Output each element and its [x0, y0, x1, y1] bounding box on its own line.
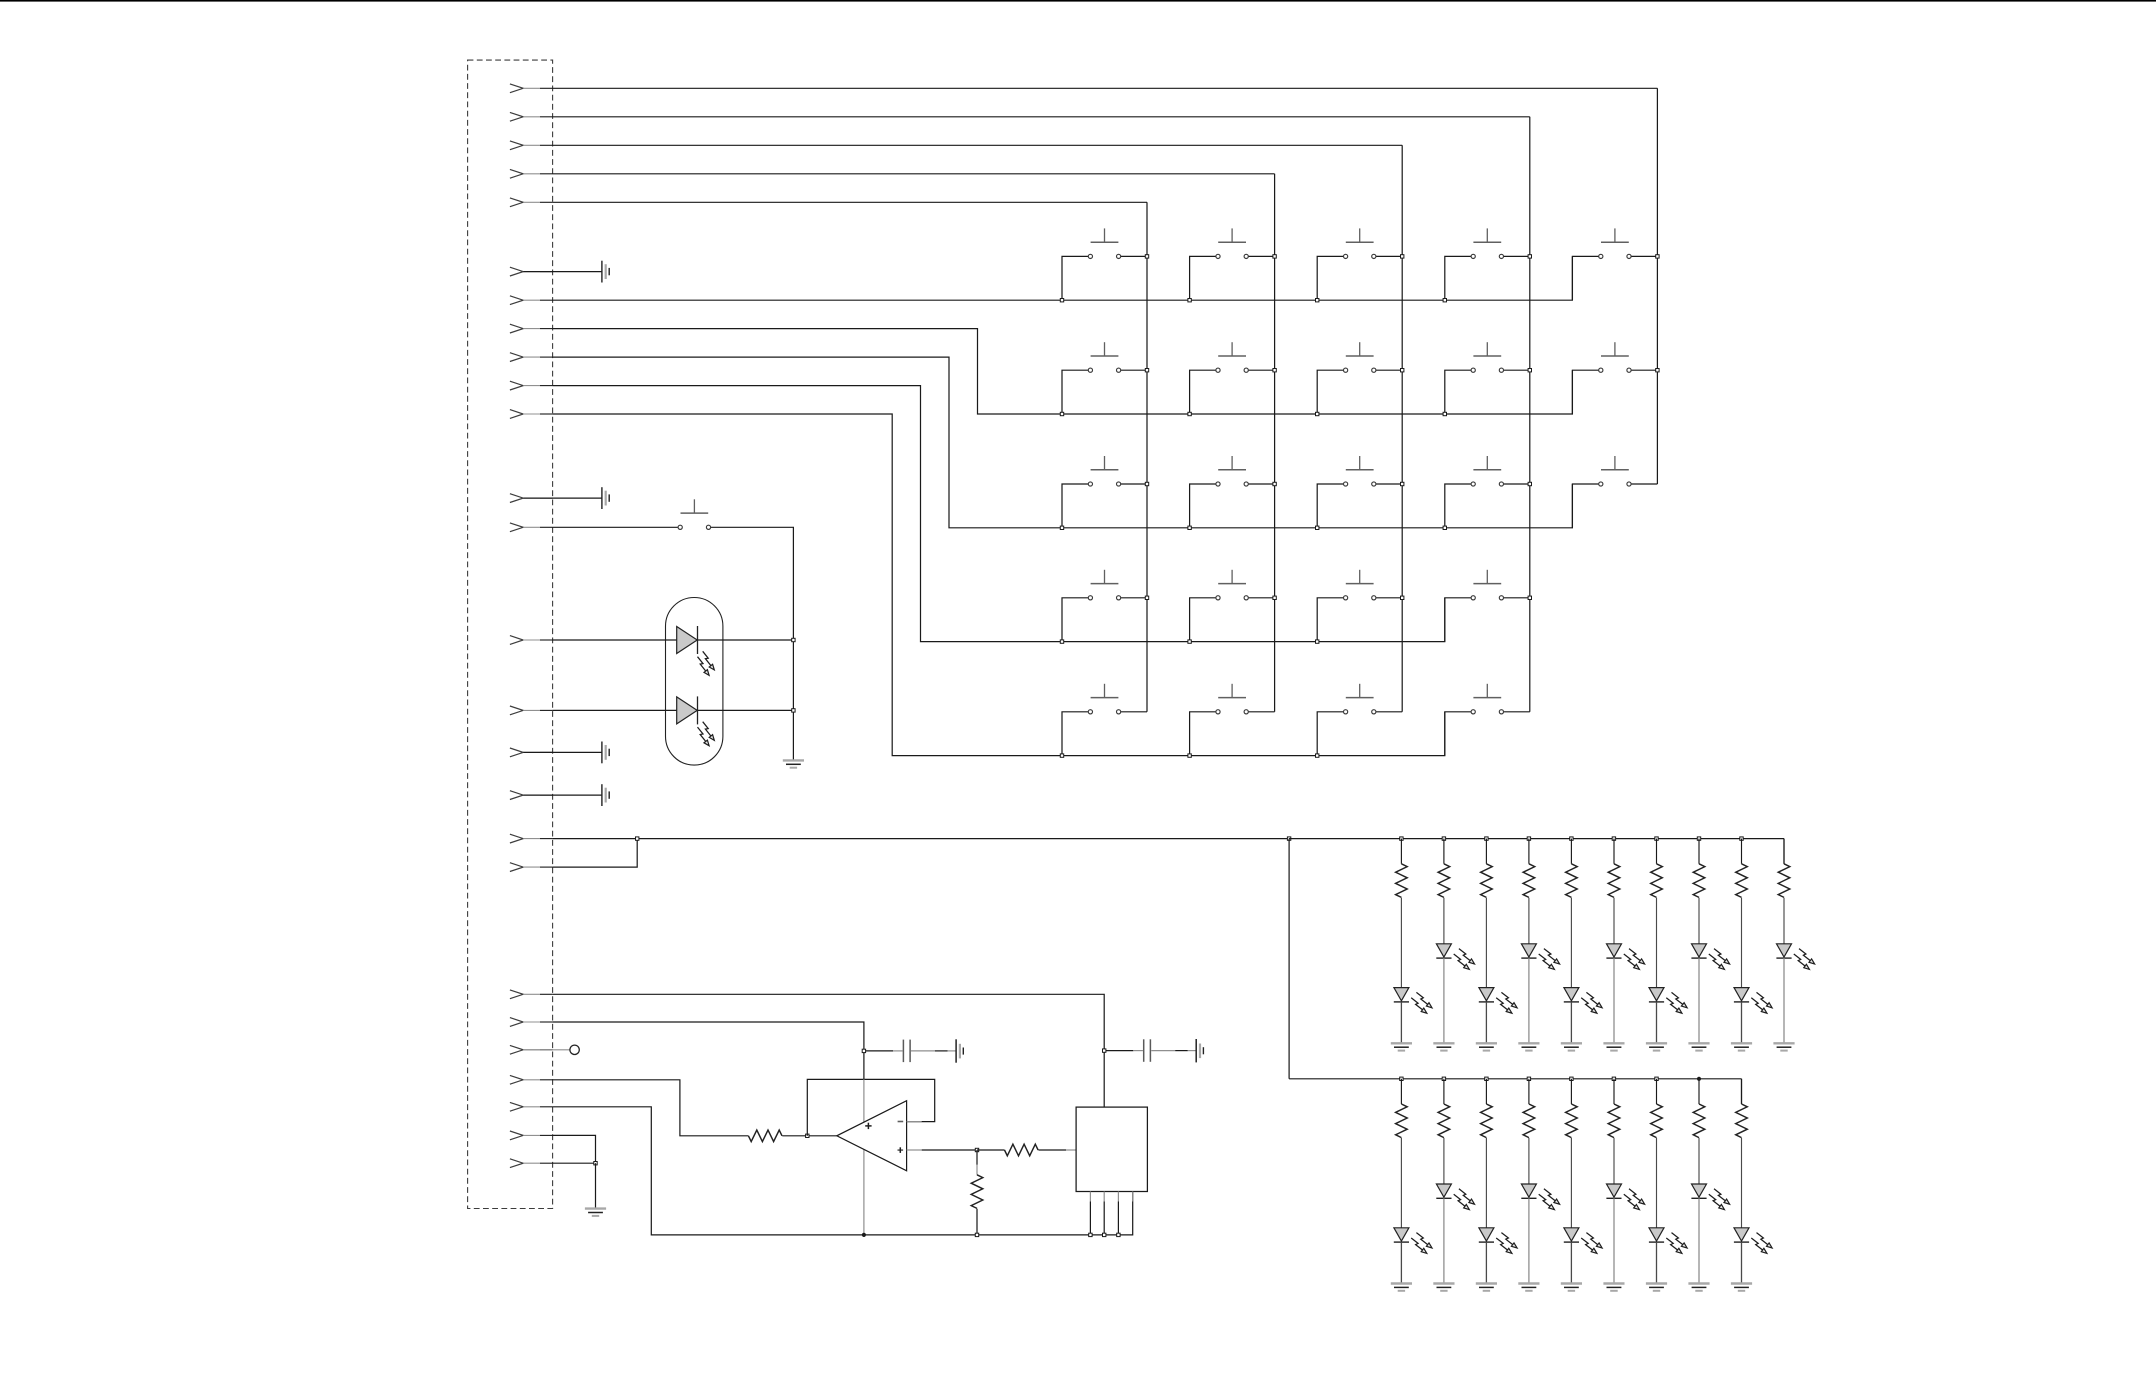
- switch SW1 right lead: [1121, 255, 1147, 257]
- connector pin 17: [510, 791, 553, 800]
- switch SW24: [678, 499, 711, 529]
- wire LED D21 to ground: [1741, 1242, 1743, 1283]
- ground of LED column 18: [1603, 1284, 1624, 1291]
- wire LED D5 to ground: [1485, 1002, 1487, 1043]
- row 5 wire from pin 11: [553, 414, 1445, 756]
- LED D8: [1606, 944, 1644, 970]
- connector pin 7: [510, 296, 553, 305]
- wire resistor to LED D15: [1485, 1138, 1487, 1228]
- wire LED D7 to ground: [1570, 1002, 1572, 1043]
- wire pin3 to column 3: [553, 144, 1403, 146]
- LED D5: [1479, 988, 1517, 1014]
- LED D3: [1394, 988, 1432, 1014]
- LED bank 2 bus wire: [1289, 1078, 1741, 1080]
- LED D1: [677, 626, 715, 675]
- junction IC pin2 rail: [1103, 1233, 1106, 1236]
- capacitor C1 branch: [864, 1040, 956, 1063]
- LED D16: [1521, 1184, 1559, 1210]
- junction bank2 column 1: [1400, 1077, 1403, 1080]
- switch SW12: [1216, 456, 1248, 486]
- wire resistor to LED D20: [1698, 1138, 1700, 1184]
- wire pin4 to column 2: [553, 173, 1275, 175]
- wire LED D13 to ground: [1400, 1242, 1402, 1283]
- junction IC pin3 rail: [1117, 1233, 1120, 1236]
- wire pin21 net through op-amp to bottom rail (grey): [863, 1079, 865, 1235]
- IC U2 bottom pin 3: [1117, 1192, 1119, 1202]
- junction column 5 row 2: [1656, 369, 1659, 372]
- ground of LED column 12: [1773, 1043, 1794, 1050]
- resistor R17 (bank 2): [1570, 1079, 1572, 1104]
- ground of LED column 5: [1476, 1043, 1497, 1050]
- ground of LED column 10: [1688, 1043, 1709, 1050]
- wire LED D15 to ground: [1485, 1242, 1487, 1283]
- junction row 4 col 3: [1316, 640, 1319, 643]
- ground of LED column 8: [1603, 1043, 1624, 1050]
- ground below LED module: [783, 760, 804, 767]
- LED bank 2 bus right corner down: [1741, 1079, 1743, 1104]
- switch SW14 left lead: [1445, 484, 1471, 528]
- op-amp U1: [837, 1101, 907, 1171]
- wire pin 23 to resistor R1: [553, 1080, 749, 1136]
- junction column 4 row 4: [1528, 596, 1531, 599]
- switch SW15: [1599, 456, 1631, 486]
- wire resistor to LED D16: [1528, 1138, 1530, 1184]
- wire resistor to LED D17: [1570, 1138, 1572, 1228]
- switch SW5 right lead: [1631, 255, 1657, 257]
- switch SW5 left lead: [1572, 256, 1598, 300]
- junction row 3 col 4: [1443, 526, 1446, 529]
- switch SW22: [1344, 684, 1376, 714]
- connector pin 24: [510, 1102, 553, 1111]
- ground of LED column 15: [1476, 1284, 1497, 1291]
- switch SW23 left lead: [1445, 712, 1471, 756]
- wire resistor to LED D12: [1783, 898, 1785, 944]
- top border line: [0, 0, 2156, 2]
- wire LED D18 to ground: [1613, 1198, 1615, 1283]
- junction pin25/pin26: [594, 1162, 597, 1165]
- resistor R13 (bank 2): [1400, 1079, 1402, 1104]
- LED D19: [1649, 1228, 1687, 1254]
- connector pin 18: [510, 834, 553, 843]
- junction row 5 col 1: [1060, 754, 1063, 757]
- switch SW23: [1471, 684, 1503, 714]
- ground pin 16: [523, 751, 602, 753]
- junction column 2 row 3: [1273, 482, 1276, 485]
- resistor R22 vertical to rail: [976, 1150, 978, 1165]
- connector pin 22: [510, 1045, 553, 1054]
- switch SW19 left lead: [1445, 598, 1471, 642]
- connector pin 6: [510, 267, 553, 276]
- connector pin 16: [510, 748, 553, 757]
- junction column 5 row 1: [1656, 255, 1659, 258]
- switch SW8: [1344, 342, 1376, 372]
- wire resistor to LED D14: [1443, 1138, 1445, 1184]
- wire pin1 to column 5: [553, 87, 1658, 89]
- wire LED D20 to ground: [1698, 1198, 1700, 1283]
- switch SW14 right lead: [1503, 483, 1529, 485]
- switch SW21 left lead: [1190, 712, 1216, 756]
- switch SW16 left lead: [1062, 598, 1088, 642]
- resistor R11 (bank 1): [1741, 839, 1743, 864]
- junction bank1 column 9: [1740, 837, 1743, 840]
- junction column 3 row 2: [1401, 369, 1404, 372]
- switch SW21 right lead: [1248, 711, 1274, 713]
- junction column 2 row 4: [1273, 596, 1276, 599]
- switch SW7: [1216, 342, 1248, 372]
- wire pin 20 to IC U2 top: [553, 994, 1105, 1107]
- switch SW6 left lead: [1062, 370, 1088, 414]
- connector pin 13: [510, 523, 553, 532]
- switch SW7 left lead: [1190, 370, 1216, 414]
- junction row 2 col 2: [1188, 412, 1191, 415]
- LED D21: [1734, 1228, 1772, 1254]
- junction row 2 col 3: [1316, 412, 1319, 415]
- wire LED D8 to ground: [1613, 958, 1615, 1043]
- switch SW17: [1216, 570, 1248, 600]
- switch SW7 right lead: [1248, 369, 1274, 371]
- junction bank2 column 4: [1527, 1077, 1530, 1080]
- connector pin 4: [510, 169, 553, 178]
- switch SW22 left lead: [1317, 712, 1343, 756]
- junction bank1 column 3: [1485, 837, 1488, 840]
- LED D6: [1521, 944, 1559, 970]
- junction row 1 col 1: [1060, 299, 1063, 302]
- switch SW20 left lead: [1062, 712, 1088, 756]
- LED D15: [1479, 1228, 1517, 1254]
- resistor R4 (bank 1): [1443, 839, 1445, 864]
- feedback wire U1 output to inverting input: [807, 1079, 934, 1135]
- wire LED D6 to ground: [1528, 958, 1530, 1043]
- junction column 1 row 4: [1145, 596, 1148, 599]
- wire pin2 to column 4: [553, 116, 1530, 118]
- wire resistor R1 to op-amp U1 output: [782, 1135, 837, 1137]
- IC U2 bottom pin 2: [1103, 1192, 1105, 1202]
- switch SW6 right lead: [1121, 369, 1147, 371]
- resistor R2: [1005, 1144, 1039, 1156]
- wire pin 25 to pin 26 junction: [553, 1135, 596, 1163]
- junction op-amp output / feedback: [806, 1134, 809, 1137]
- switch SW3 left lead: [1317, 256, 1343, 300]
- row 3 wire from pin 9: [553, 357, 1573, 528]
- ground of LED column 13: [1391, 1284, 1412, 1291]
- junction bank2 column 7: [1655, 1077, 1658, 1080]
- switch SW19: [1471, 570, 1503, 600]
- wire LED D16 to ground: [1528, 1198, 1530, 1283]
- LED D9: [1649, 988, 1687, 1014]
- switch SW18: [1344, 570, 1376, 600]
- junction bank1 column 8: [1697, 837, 1700, 840]
- row 2 wire from pin 8: [553, 329, 1573, 414]
- connector pin 12: [510, 494, 553, 503]
- switch SW5: [1599, 228, 1631, 258]
- junction row 3 col 2: [1188, 526, 1191, 529]
- connector pin 9: [510, 353, 553, 362]
- switch SW12 left lead: [1190, 484, 1216, 528]
- switch SW9: [1471, 342, 1503, 372]
- switch SW2: [1216, 228, 1248, 258]
- switch SW11: [1088, 456, 1120, 486]
- ground pin 6: [523, 271, 602, 273]
- LED D18: [1606, 1184, 1644, 1210]
- wire resistor to LED D21: [1741, 1138, 1743, 1228]
- junction bank2 column 2: [1442, 1077, 1445, 1080]
- junction row 1 col 4: [1443, 299, 1446, 302]
- junction bank1 column 7: [1655, 837, 1658, 840]
- column 3 net vertical: [1401, 145, 1403, 712]
- switch SW24 right lead to LED cathode node: [711, 527, 794, 640]
- switch SW6: [1088, 342, 1120, 372]
- switch SW17 left lead: [1190, 598, 1216, 642]
- junction bank2 column 8 (dot): [1697, 1077, 1701, 1081]
- ground of LED column 20: [1688, 1284, 1709, 1291]
- connector pin 15: [510, 706, 553, 715]
- junction pin21 rail (dot): [862, 1233, 866, 1237]
- wire resistor R2 to IC U2: [1038, 1149, 1066, 1151]
- wire bank1 bus down to bank2 bus: [1288, 839, 1290, 1079]
- junction bank1 column 5: [1570, 837, 1573, 840]
- connector pin 5: [510, 198, 553, 207]
- junction IC pin1 rail: [1089, 1233, 1092, 1236]
- switch SW15 left lead: [1572, 484, 1598, 528]
- junction bank1 column 4: [1527, 837, 1530, 840]
- junction column 4 row 2: [1528, 369, 1531, 372]
- ground of LED column 9: [1646, 1043, 1667, 1050]
- switch SW8 right lead: [1376, 369, 1402, 371]
- ground of LED column 11: [1731, 1043, 1752, 1050]
- connector pin 10: [510, 381, 553, 390]
- resistor R21 (bank 2): [1741, 1079, 1743, 1104]
- ground pin 17: [523, 794, 602, 796]
- switch SW17 right lead: [1248, 597, 1274, 599]
- ground of LED column 16: [1518, 1284, 1539, 1291]
- connector pin 8: [510, 324, 553, 333]
- open connector circle pin 22: [523, 1049, 570, 1051]
- switch SW9 right lead: [1503, 369, 1529, 371]
- junction bank2 column 3: [1485, 1077, 1488, 1080]
- wire junction to ground: [595, 1163, 597, 1208]
- resistor R5 (bank 1): [1485, 839, 1487, 864]
- junction noninverting node: [975, 1148, 978, 1151]
- IC U2 bottom pin 1: [1089, 1192, 1091, 1202]
- resistor R16 (bank 2): [1528, 1079, 1530, 1104]
- wire pin 14 to LED D1 anode: [553, 639, 677, 641]
- ground pin 12: [523, 497, 602, 499]
- wire pin5 to column 1: [553, 201, 1147, 203]
- switch SW12 right lead: [1248, 483, 1274, 485]
- LED module outline (oval): [666, 598, 723, 766]
- junction bank1 column 2: [1442, 837, 1445, 840]
- switch SW3: [1344, 228, 1376, 258]
- junction column 1 row 3: [1145, 482, 1148, 485]
- connector pin 21: [510, 1018, 553, 1027]
- LED D17: [1564, 1228, 1602, 1254]
- wire to resistor R2: [977, 1149, 1005, 1151]
- resistor R1: [748, 1130, 782, 1142]
- wire resistor to LED D11: [1741, 898, 1743, 988]
- LED bank 1 bus right corner down: [1783, 839, 1785, 864]
- wire LED D1 cathode to node: [698, 639, 794, 641]
- switch SW9 left lead: [1445, 370, 1471, 414]
- wire resistor to LED D10: [1698, 898, 1700, 944]
- LED D13: [1394, 1228, 1432, 1254]
- switch SW2 left lead: [1190, 256, 1216, 300]
- wire pin 21 down to bottom rail: [553, 1022, 864, 1079]
- wire LED D3 to ground: [1400, 1002, 1402, 1043]
- wire LED D12 to ground: [1783, 958, 1785, 1043]
- switch SW1 left lead: [1062, 256, 1088, 300]
- switch SW11 right lead: [1121, 483, 1147, 485]
- ground pins 25/26: [585, 1209, 606, 1216]
- wire resistor to LED D13: [1400, 1138, 1402, 1228]
- connector pin 23: [510, 1075, 553, 1084]
- switch SW20 right lead: [1121, 711, 1147, 713]
- LED D12: [1776, 944, 1814, 970]
- junction row 2 col 4: [1443, 412, 1446, 415]
- wire LED D10 to ground: [1698, 958, 1700, 1043]
- resistor R7 (bank 1): [1570, 839, 1572, 864]
- wire pin 18 to LED bank bus: [553, 838, 1290, 840]
- IC U2 body: [1076, 1107, 1147, 1191]
- junction row 3 col 3: [1316, 526, 1319, 529]
- ground of LED column 4: [1433, 1043, 1454, 1050]
- column 1 net vertical: [1146, 202, 1148, 712]
- junction column 4 row 3: [1528, 482, 1531, 485]
- LED D2: [677, 696, 715, 745]
- switch SW14: [1471, 456, 1503, 486]
- wire LED D9 to ground: [1656, 1002, 1658, 1043]
- capacitor C2 branch: [1104, 1039, 1196, 1062]
- switch SW22 right lead: [1376, 711, 1402, 713]
- junction row 5 col 2: [1188, 754, 1191, 757]
- resistor R18 (bank 2): [1613, 1079, 1615, 1104]
- resistor R8 (bank 1): [1613, 839, 1615, 864]
- ground of LED column 6: [1518, 1043, 1539, 1050]
- switch SW11 left lead: [1062, 484, 1088, 528]
- junction column 1 row 1: [1145, 255, 1148, 258]
- junction capacitor C1: [862, 1049, 865, 1052]
- wire LED D19 to ground: [1656, 1242, 1658, 1283]
- resistor R15 (bank 2): [1485, 1079, 1487, 1104]
- junction capacitor C2: [1103, 1049, 1106, 1052]
- switch SW10: [1599, 342, 1631, 372]
- junction row 4 col 1: [1060, 640, 1063, 643]
- connector pin 11: [510, 410, 553, 419]
- resistor R3 (bank 1): [1400, 839, 1402, 864]
- ground of LED column 17: [1561, 1284, 1582, 1291]
- junction row 1 col 3: [1316, 299, 1319, 302]
- junction bank1 column 1: [1400, 837, 1403, 840]
- switch SW20: [1088, 684, 1120, 714]
- switch SW2 right lead: [1248, 255, 1274, 257]
- LED D14: [1436, 1184, 1474, 1210]
- IC U2 bottom pin 4: [1132, 1192, 1134, 1202]
- resistor R9 (bank 1): [1656, 839, 1658, 864]
- ground of LED column 14: [1433, 1284, 1454, 1291]
- wire LED cathode node to ground: [792, 640, 794, 760]
- junction LED D2 cathode: [792, 709, 795, 712]
- junction column 3 row 4: [1401, 596, 1404, 599]
- connector pin 2: [510, 112, 553, 121]
- switch SW16: [1088, 570, 1120, 600]
- wire LED D17 to ground: [1570, 1242, 1572, 1283]
- LED D7: [1564, 988, 1602, 1014]
- ground capacitor C2: [1196, 1039, 1203, 1062]
- junction column 3 row 3: [1401, 482, 1404, 485]
- junction bank1 column 6: [1612, 837, 1615, 840]
- connector pin 1: [510, 84, 553, 93]
- ground of LED column 19: [1646, 1284, 1667, 1291]
- switch SW23 right lead: [1503, 711, 1529, 713]
- switch SW4 left lead: [1445, 256, 1471, 300]
- wire resistor to LED D5: [1485, 898, 1487, 988]
- junction bank2 column 6: [1612, 1077, 1615, 1080]
- LED D4: [1436, 944, 1474, 970]
- LED D11: [1734, 988, 1772, 1014]
- switch SW13: [1344, 456, 1376, 486]
- junction column 4 row 1: [1528, 255, 1531, 258]
- switch SW19 right lead: [1503, 597, 1529, 599]
- junction row 2 col 1: [1060, 412, 1063, 415]
- wire pin 26: [553, 1162, 596, 1164]
- wire resistor to LED D18: [1613, 1138, 1615, 1184]
- switch SW13 left lead: [1317, 484, 1343, 528]
- switch SW18 right lead: [1376, 597, 1402, 599]
- junction LED D1 cathode: [792, 638, 795, 641]
- wire LED D11 to ground: [1741, 1002, 1743, 1043]
- junction R22 rail: [975, 1233, 978, 1236]
- resistor R6 (bank 1): [1528, 839, 1530, 864]
- junction column 2 row 2: [1273, 369, 1276, 372]
- resistor R12 (bank 1): [1783, 839, 1785, 864]
- switch SW1: [1088, 228, 1120, 258]
- switch SW4: [1471, 228, 1503, 258]
- LED bank 1 bus wire: [1289, 838, 1784, 840]
- switch SW21: [1216, 684, 1248, 714]
- LED D10: [1691, 944, 1729, 970]
- switch SW15 right lead: [1631, 483, 1657, 485]
- wire resistor to LED D6: [1528, 898, 1530, 944]
- switch SW4 right lead: [1503, 255, 1529, 257]
- connector pin 3: [510, 141, 553, 150]
- junction row 3 col 1: [1060, 526, 1063, 529]
- switch SW3 right lead: [1376, 255, 1402, 257]
- row 1 wire from pin 7: [553, 256, 1573, 300]
- junction row 1 col 2: [1188, 299, 1191, 302]
- junction pin18/pin19: [636, 837, 639, 840]
- wire resistor to LED D19: [1656, 1138, 1658, 1228]
- connector pin 20: [510, 990, 553, 999]
- row 4 wire from pin 10: [553, 386, 1445, 642]
- ground of LED column 21: [1731, 1284, 1752, 1291]
- junction column 2 row 1: [1273, 255, 1276, 258]
- junction row 4 col 2: [1188, 640, 1191, 643]
- wire resistor to LED D9: [1656, 898, 1658, 988]
- wire pin 19 up to pin 18 net: [553, 839, 638, 868]
- connector J1 dashed outline: [468, 60, 553, 1208]
- switch SW8 left lead: [1317, 370, 1343, 414]
- junction row 5 col 3: [1316, 754, 1319, 757]
- switch SW10 left lead: [1572, 370, 1598, 414]
- wire resistor to LED D7: [1570, 898, 1572, 988]
- switch SW10 right lead: [1631, 369, 1657, 371]
- connector pin 14: [510, 636, 553, 645]
- junction column 1 row 2: [1145, 369, 1148, 372]
- column 5 net vertical: [1656, 88, 1658, 484]
- op-amp U1 inverting input stub: [907, 1121, 922, 1123]
- junction LED bank bus left: [1287, 837, 1290, 840]
- wire pin 24 to bottom rail: [553, 1107, 1133, 1235]
- switch SW16 right lead: [1121, 597, 1147, 599]
